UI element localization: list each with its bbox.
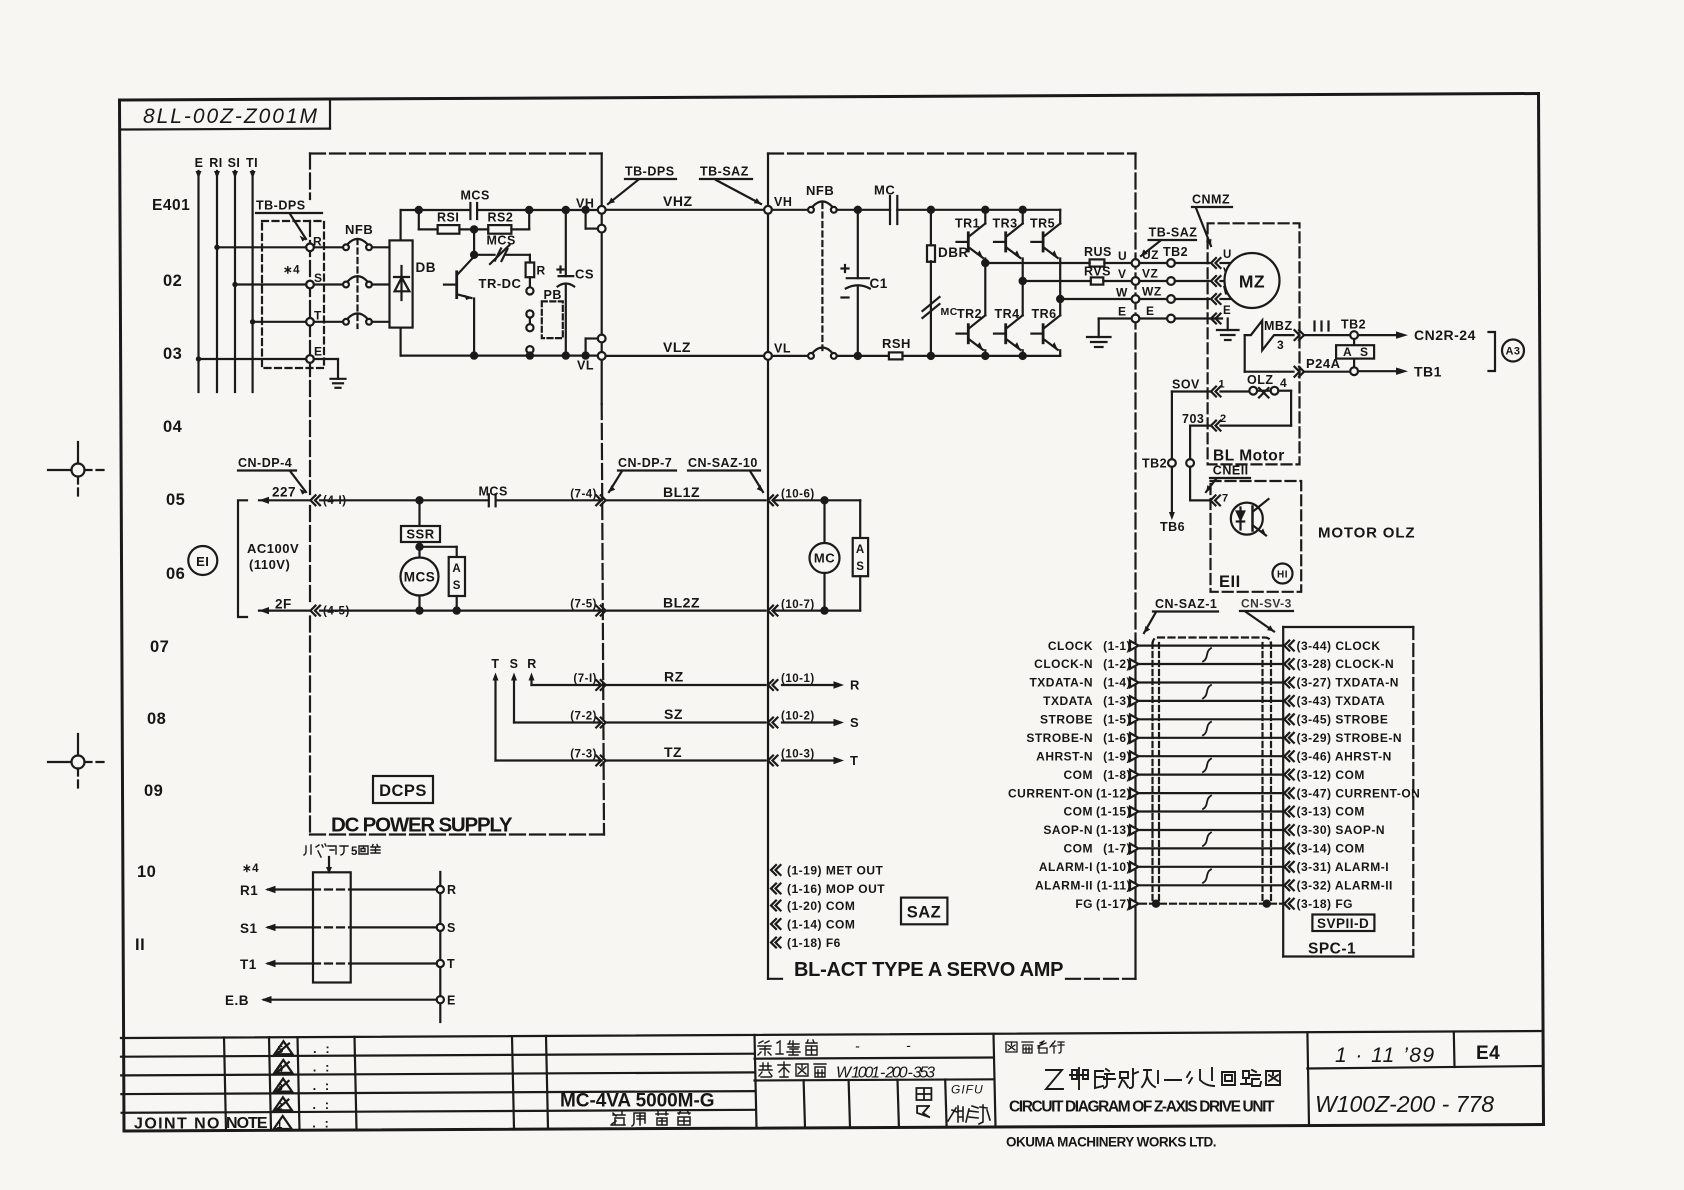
svg-text:MCS: MCS (487, 234, 516, 248)
svg-text:RSH: RSH (882, 336, 911, 351)
svg-text:(3-47) CURRENT-ON: (3-47) CURRENT-ON (1297, 786, 1421, 800)
svg-text:. :: . : (313, 1041, 330, 1056)
svg-text:CLOCK-N: CLOCK-N (1034, 657, 1093, 671)
svg-text:S: S (314, 271, 323, 285)
svg-text:MCS: MCS (479, 485, 508, 499)
wire VLZ (606, 355, 765, 357)
breaker NFB (SAZ) (806, 183, 834, 198)
svg-text:TR1: TR1 (955, 217, 980, 231)
capacitor CS (563, 207, 569, 213)
wire STROBE (1140, 718, 1283, 720)
svg-text:SVPII-D: SVPII-D (1317, 916, 1369, 931)
wire COM (1140, 810, 1283, 812)
svg-text:VZ: VZ (1142, 267, 1158, 281)
svg-text:PB: PB (544, 288, 562, 302)
pin 2 chevron (1211, 421, 1221, 431)
svg-text:CNEII: CNEII (1213, 464, 1249, 478)
terminal R (306, 244, 314, 252)
svg-text:P24A: P24A (1306, 356, 1341, 371)
svg-text:1: 1 (1219, 379, 1226, 391)
svg-text:(1-15): (1-15) (1096, 805, 1131, 819)
svg-text:SZ: SZ (664, 706, 683, 722)
wire STROBE-N (1140, 737, 1283, 739)
junction dots (214, 245, 219, 250)
label CNE11 leader (1213, 464, 1249, 478)
svg-text:S: S (510, 657, 519, 671)
svg-text:MC: MC (874, 183, 895, 198)
svg-text:U: U (1223, 249, 1232, 261)
pushbutton PB dashed (542, 301, 563, 338)
svg-text:8LL-00Z-Z001M: 8LL-00Z-Z001M (143, 105, 318, 128)
svg-text:CURRENT-ON: CURRENT-ON (1008, 786, 1093, 800)
svg-text:S1: S1 (240, 921, 258, 936)
svg-text:CN-SAZ-10: CN-SAZ-10 (688, 456, 758, 470)
svg-text:RVS: RVS (1084, 265, 1111, 279)
svg-text:U: U (1118, 249, 1127, 263)
wire TXDATA-N (1140, 681, 1283, 683)
svg-text:EI: EI (196, 554, 209, 569)
resistor RS2 (488, 225, 511, 234)
svg-text:E: E (1146, 304, 1155, 318)
svg-text:. :: . : (312, 1097, 329, 1112)
contactor coil MC (823, 500, 825, 543)
svg-text:VH: VH (576, 197, 594, 211)
contact MCS aux (angled) (473, 229, 475, 254)
svg-text:S: S (1360, 345, 1369, 359)
thermal protector MBZ (1245, 321, 1294, 351)
svg-text:MC-4VA 5000M-G: MC-4VA 5000M-G (560, 1091, 715, 1112)
wire S1 (268, 926, 313, 928)
unit boundary top (310, 152, 602, 154)
svg-text:E: E (1118, 305, 1127, 319)
svg-text:HI: HI (1277, 570, 1288, 581)
svg-text:4: 4 (1280, 376, 1287, 390)
svg-text:08: 08 (147, 710, 166, 728)
wire SOV (1172, 390, 1211, 392)
svg-text:DCPS: DCPS (379, 782, 427, 800)
wire U phase (982, 260, 988, 266)
wire COM (1140, 847, 1283, 849)
svg-text:STROBE-N: STROBE-N (1026, 731, 1093, 745)
wire 227 (259, 499, 310, 501)
svg-text:S: S (850, 715, 859, 730)
svg-text:TB6: TB6 (1160, 520, 1185, 534)
svg-text:TB-SAZ: TB-SAZ (700, 165, 749, 179)
svg-text:TI: TI (246, 156, 258, 170)
label TB-DPS leader (625, 165, 749, 179)
svg-text:T1: T1 (240, 957, 257, 972)
svg-text:E: E (314, 345, 323, 359)
svg-text:R: R (850, 678, 860, 693)
svg-text:RSI: RSI (437, 211, 459, 225)
terminal VH (598, 206, 606, 214)
svg-text:(7-I): (7-I) (573, 673, 597, 685)
svg-text:CIRCUIT DIAGRAM OF Z-AXIS DRIV: CIRCUIT DIAGRAM OF Z-AXIS DRIVE UNIT (1009, 1099, 1275, 1116)
auxiliary switch AS (1353, 339, 1355, 345)
svg-text:(10-6): (10-6) (781, 489, 815, 501)
terminal block TB-DPS dashed outline (262, 221, 324, 368)
svg-text:(7-4): (7-4) (570, 489, 597, 501)
transformer core box (313, 872, 351, 982)
svg-text:OLZ: OLZ (1247, 373, 1274, 387)
svg-text:(10-3): (10-3) (781, 749, 815, 761)
wire E vertical (197, 171, 199, 392)
svg-text:II: II (135, 936, 145, 954)
svg-text:(3-13) COM: (3-13) COM (1297, 805, 1365, 819)
wire BL1Z internal (773, 499, 860, 501)
svg-text:(3-29) STROBE-N: (3-29) STROBE-N (1297, 731, 1403, 745)
svg-text:(3-46) AHRST-N: (3-46) AHRST-N (1297, 749, 1392, 763)
svg-text:7: 7 (1222, 493, 1229, 505)
svg-text:EII: EII (1219, 573, 1241, 591)
svg-text:4: 4 (277, 1063, 283, 1075)
svg-text:(1-6): (1-6) (1103, 731, 1131, 745)
svg-text:(1-7): (1-7) (1103, 842, 1131, 856)
label TB-DPS with leader arrow (256, 199, 306, 213)
svg-text:MCS: MCS (461, 189, 490, 203)
svg-text:SSR: SSR (406, 527, 434, 542)
resistor RVS (1091, 277, 1104, 284)
svg-text:TB-DPS: TB-DPS (256, 199, 306, 213)
svg-text:(3-18) FG: (3-18) FG (1297, 897, 1354, 911)
svg-text:TXDATA-N: TXDATA-N (1029, 676, 1093, 690)
wire DB bottom to VL rail (400, 328, 402, 356)
svg-text:TR6: TR6 (1032, 307, 1057, 321)
unit box SPC-1 (1282, 627, 1284, 957)
wire R (532, 684, 602, 686)
pin 3 chevron (1295, 330, 1305, 340)
diode symbol (400, 266, 402, 300)
kanji: 基本図面 + handwritten W1001-200-353 (759, 1062, 826, 1077)
svg-text:(3-31) ALARM-I: (3-31) ALARM-I (1297, 860, 1390, 874)
wire S1 vertical (234, 171, 236, 392)
svg-text:5: 5 (277, 1044, 283, 1056)
svg-text:COM: COM (1064, 768, 1094, 782)
label CNMZ leader (1192, 193, 1230, 207)
wire TZ (606, 759, 766, 761)
svg-text:02: 02 (163, 272, 182, 290)
trip link (356, 239, 358, 328)
svg-text:10: 10 (137, 863, 156, 881)
contact S pole (314, 283, 343, 285)
amp designation SAZ (901, 898, 947, 925)
resistor RSH (889, 352, 903, 359)
svg-text:(1-9): (1-9) (1103, 749, 1131, 763)
wire R row (217, 246, 307, 248)
svg-text:MZ: MZ (1239, 272, 1265, 292)
svg-text:R: R (537, 264, 546, 278)
svg-text:NFB: NFB (345, 222, 373, 237)
svg-text:TR2: TR2 (957, 307, 982, 321)
wires TB2 to motor (1175, 262, 1209, 264)
wire COM (1140, 773, 1283, 775)
connector CNMZ pins (1211, 258, 1221, 268)
svg-text:TB1: TB1 (1414, 364, 1442, 380)
terminal S (437, 924, 444, 931)
wire DB top to VH rail (400, 210, 402, 240)
capacitor C1 (855, 207, 861, 213)
contact MCS in 227 line (488, 494, 490, 506)
pin 1 chevron (1211, 387, 1221, 397)
svg-text:E: E (1223, 305, 1231, 317)
wire 227 to CN-DP-7 (320, 499, 489, 501)
wire SAOP-N (1140, 829, 1283, 831)
svg-text:(1-13): (1-13) (1096, 823, 1131, 837)
pin (4-1) (311, 495, 321, 505)
wire E.B (264, 999, 437, 1001)
registration mark upper (48, 442, 108, 500)
kanji: 図面名称 (drawing name) (1006, 1041, 1064, 1053)
pin 7 chevron (1211, 495, 1221, 505)
svg-text:UZ: UZ (1142, 248, 1159, 262)
drawing number header box (120, 99, 330, 129)
svg-text:E: E (447, 994, 456, 1008)
svg-text:MC: MC (814, 551, 835, 566)
svg-text:MOTOR OLZ: MOTOR OLZ (1318, 525, 1415, 542)
svg-text:RI: RI (209, 156, 223, 170)
wire CLOCK (1140, 644, 1283, 646)
pin 4 chevron (1295, 367, 1305, 377)
svg-text:703: 703 (1182, 412, 1204, 426)
unit boundary bottom (310, 833, 604, 835)
svg-text:(1-8): (1-8) (1103, 768, 1131, 782)
svg-text:(7-2): (7-2) (570, 711, 597, 723)
contactor coil MCS (401, 558, 439, 596)
relay SSR (418, 500, 420, 526)
svg-text:MCS: MCS (404, 570, 436, 585)
svg-text:(1-2): (1-2) (1103, 657, 1131, 671)
svg-text:DBR: DBR (938, 245, 969, 260)
terminal E (306, 355, 314, 363)
svg-text:-: - (906, 1037, 912, 1053)
right part: product no rows (755, 1058, 994, 1059)
svg-text:CN2R-24: CN2R-24 (1414, 327, 1476, 343)
terminal S (306, 281, 314, 289)
wire stubs into MZ (1221, 262, 1231, 264)
svg-text:(3-12) COM: (3-12) COM (1297, 768, 1365, 782)
kanji: 第1製番 (758, 1040, 817, 1055)
svg-text:SI: SI (228, 156, 241, 170)
svg-text:TR4: TR4 (995, 307, 1020, 321)
svg-text:T: T (447, 957, 455, 971)
terminal TB2 (1350, 331, 1358, 339)
svg-text:(110V): (110V) (249, 557, 290, 572)
svg-text:SAZ: SAZ (907, 904, 942, 922)
svg-text:CN-DP-7: CN-DP-7 (618, 456, 672, 470)
svg-text:(1-18) F6: (1-18) F6 (787, 936, 841, 950)
wire BL2Z (606, 609, 766, 611)
svg-text:TB-SAZ: TB-SAZ (1149, 226, 1198, 240)
svg-text:VHZ: VHZ (663, 193, 693, 209)
contact OLZ (1247, 373, 1274, 387)
svg-text:(1-19) MET OUT: (1-19) MET OUT (787, 864, 884, 878)
svg-text:BL-ACT TYPE A SERVO AMP: BL-ACT TYPE A SERVO AMP (794, 959, 1064, 981)
svg-text:(1-3): (1-3) (1103, 694, 1131, 708)
svg-text:(3-45) STROBE: (3-45) STROBE (1297, 713, 1389, 727)
dot colon marks in each revision row (312, 1041, 330, 1131)
svg-text:. :: . : (313, 1060, 330, 1075)
svg-text:VL: VL (774, 342, 791, 356)
transistor TR5 (1030, 217, 1055, 231)
bus vertical (439, 872, 441, 1022)
unit boundary DPS right edge (601, 154, 603, 405)
svg-text:T: T (850, 753, 858, 768)
node E1 (188, 546, 217, 575)
svg-text:(10-1): (10-1) (781, 673, 815, 685)
svg-text:WZ: WZ (1142, 285, 1162, 299)
note ring-core 5 turns (katakana) (304, 844, 380, 858)
svg-text:RZ: RZ (664, 669, 684, 685)
svg-text:. :: . : (312, 1116, 329, 1131)
wire P24A to TB1 (1306, 356, 1341, 371)
svg-text:. :: . : (313, 1078, 330, 1093)
svg-text:(1-12): (1-12) (1096, 786, 1131, 800)
svg-text:JOINT NO: JOINT NO (134, 1116, 220, 1133)
svg-text:(3-30) SAOP-N: (3-30) SAOP-N (1297, 823, 1386, 837)
wire AHRST-N (1140, 755, 1283, 757)
svg-text:TB-DPS: TB-DPS (625, 165, 675, 179)
svg-text:(1-5): (1-5) (1103, 713, 1131, 727)
resistor RS1 branch (416, 207, 422, 213)
svg-text:(10-2): (10-2) (781, 711, 815, 723)
wire CURRENT-ON (1140, 792, 1283, 794)
svg-text:CS: CS (575, 267, 594, 282)
wire BL1Z (606, 499, 766, 501)
svg-text:1: 1 (277, 1119, 283, 1131)
svg-text:-: - (855, 1038, 861, 1054)
svg-text:SAOP-N: SAOP-N (1043, 823, 1093, 837)
svg-text:TR-DC: TR-DC (479, 276, 522, 291)
wire R1 vertical (216, 171, 218, 392)
twisted pair marks (1203, 648, 1211, 661)
wire S (514, 721, 602, 723)
svg-text:RUS: RUS (1084, 245, 1112, 259)
svg-text:(1-10): (1-10) (1096, 860, 1131, 874)
svg-text:TXDATA: TXDATA (1043, 694, 1093, 708)
motor MZ (1225, 253, 1280, 308)
border frame (120, 94, 1544, 1132)
pin (10-7) (768, 606, 778, 616)
svg-text:(3-44) CLOCK: (3-44) CLOCK (1297, 639, 1381, 653)
svg-text:CN-SV-3: CN-SV-3 (1241, 597, 1292, 611)
svg-text:(1-4): (1-4) (1103, 676, 1131, 690)
revision triangles column (274, 1041, 293, 1129)
wire ALARM-II (1140, 884, 1283, 886)
contact R pole (314, 246, 343, 248)
svg-text:(3-28) CLOCK-N: (3-28) CLOCK-N (1297, 657, 1395, 671)
wire TXDATA (1140, 700, 1283, 702)
svg-text:W 1001 - 200 - 353: W 1001 - 200 - 353 (836, 1065, 936, 1082)
svg-text:TB2: TB2 (1341, 318, 1366, 332)
wire CLOCK-N (1140, 663, 1283, 665)
wire BL2Z internal (773, 609, 860, 611)
svg-text:DC POWER SUPPLY: DC POWER SUPPLY (331, 814, 513, 837)
label CN-SV-3 leader (1241, 597, 1292, 611)
TITLE BLOCK (121, 1031, 1543, 1130)
terminal circles redraw over boundary (306, 244, 314, 252)
svg-text:04: 04 (163, 418, 183, 436)
svg-text:W100Z-200 - 778: W100Z-200 - 778 (1315, 1091, 1495, 1117)
transistor TR2 (957, 307, 982, 321)
svg-text:W: W (1116, 286, 1128, 300)
svg-text:ALARM-I: ALARM-I (1039, 860, 1093, 874)
label TB-SAZ leader (1149, 226, 1198, 240)
svg-text:T: T (491, 657, 499, 671)
transistor TR-DC (455, 272, 458, 298)
unit box E11 (1211, 481, 1302, 592)
terminal E (437, 996, 444, 1003)
shield screen dashed (1151, 643, 1153, 902)
transistor TR4 (995, 307, 1020, 321)
svg-text:BL2Z: BL2Z (663, 595, 700, 611)
wire VH rail (401, 209, 471, 211)
svg-text:07: 07 (150, 638, 169, 656)
svg-text:(10-7): (10-7) (781, 599, 815, 611)
wire RZ (606, 684, 766, 686)
wire E row (199, 358, 307, 360)
svg-text:(3-32) ALARM-II: (3-32) ALARM-II (1297, 879, 1393, 893)
transistor TR6 (1032, 307, 1057, 321)
terminal R (437, 886, 444, 893)
svg-text:2: 2 (1220, 413, 1227, 425)
svg-text:TB2: TB2 (1163, 245, 1188, 259)
pin (10-6) (768, 495, 778, 505)
registration mark lower (48, 734, 108, 792)
wire T (496, 759, 602, 761)
svg-text:227: 227 (272, 485, 296, 500)
svg-text:R: R (447, 883, 457, 897)
svg-text:05: 05 (166, 491, 185, 509)
resistor RUS (1090, 259, 1105, 266)
svg-text:VL: VL (577, 359, 594, 373)
unit boundary bottom (768, 978, 786, 980)
svg-text:(7-5): (7-5) (570, 599, 597, 611)
wire V phase (1020, 278, 1026, 284)
wire SZ (606, 721, 766, 723)
wire T1 vertical (252, 171, 254, 392)
svg-text:CNMZ: CNMZ (1192, 193, 1230, 207)
big title: Z軸駆動ユニット回路図 (1046, 1068, 1280, 1089)
svg-text:5: 5 (351, 846, 358, 858)
svg-text:COM: COM (1064, 842, 1094, 856)
svg-text:E4: E4 (1476, 1043, 1500, 1064)
wires TB-SAZ to TB2 (1139, 262, 1167, 264)
svg-text:VLZ: VLZ (663, 339, 691, 355)
motor unit box (1208, 223, 1300, 464)
unit boundary right (1134, 154, 1136, 641)
svg-text:AHRST-N: AHRST-N (1036, 749, 1093, 763)
varistor MC (923, 297, 940, 311)
wire W phase (1057, 296, 1063, 302)
auxiliary switch AS (859, 500, 861, 538)
svg-text:E: E (195, 156, 204, 170)
wire 2F (259, 609, 310, 611)
svg-text:2: 2 (277, 1100, 283, 1112)
wire 2F to CN-DP-7 (320, 609, 602, 611)
labels (1219, 573, 1241, 591)
svg-text:SPC-1: SPC-1 (1308, 941, 1356, 958)
ground E (SAZ) (1099, 317, 1132, 319)
OLZ loop (1278, 390, 1291, 392)
thermostat symbol (1231, 503, 1263, 535)
svg-text:RS2: RS2 (488, 211, 514, 225)
svg-text:R: R (527, 657, 537, 671)
kanji: 適用機種 (applicable machines) (611, 1110, 690, 1126)
terminals TB2 (1167, 259, 1175, 267)
label CN-SAZ-1 leader (1155, 597, 1217, 611)
svg-text:AC100V: AC100V (247, 541, 299, 556)
bracket AC100V (238, 500, 247, 617)
